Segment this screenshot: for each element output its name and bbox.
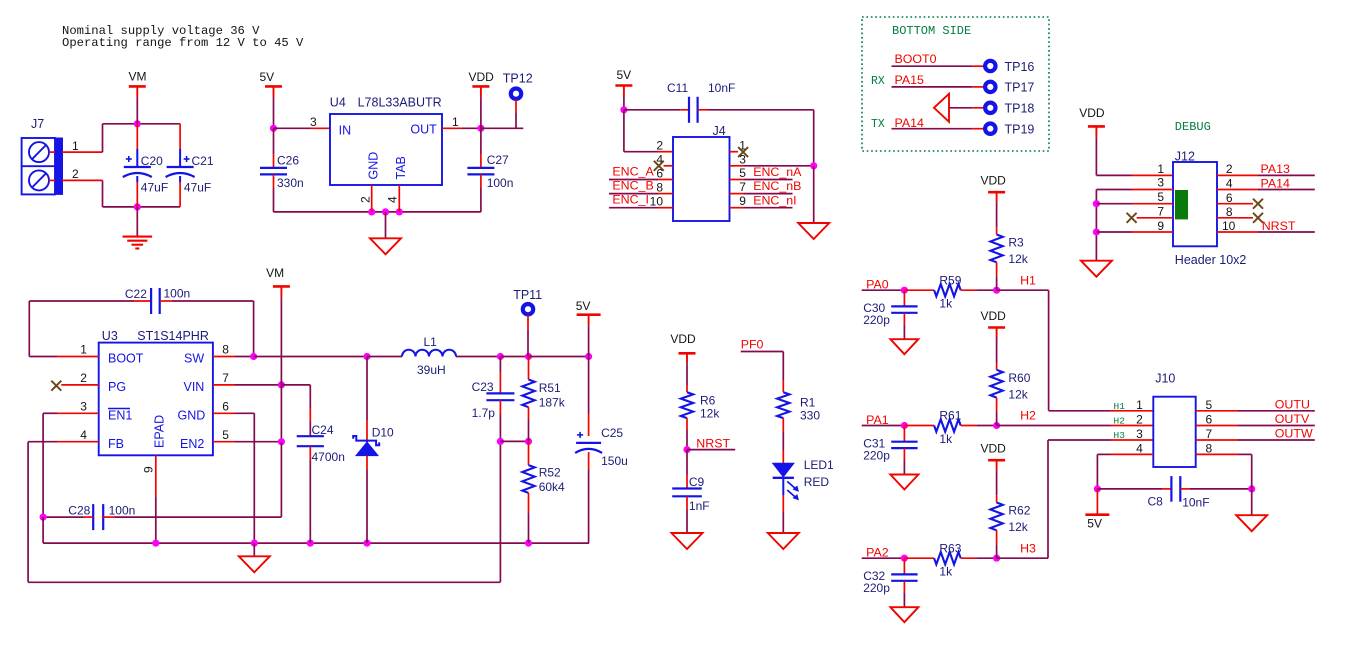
- resistor R61: [934, 419, 961, 431]
- svg-text:RED: RED: [804, 475, 830, 489]
- tag H1 green: [1114, 401, 1126, 412]
- wire VDD to R62: [996, 470, 998, 495]
- wire ENC_nB: [744, 193, 793, 195]
- svg-text:R62: R62: [1008, 504, 1030, 518]
- svg-text:5: 5: [222, 428, 229, 442]
- wire C27 to gnd rail: [399, 188, 481, 212]
- stub R63 right: [961, 557, 977, 559]
- svg-text:R60: R60: [1008, 371, 1030, 385]
- pin name EN2: [180, 437, 204, 451]
- net label OUTW: [1275, 427, 1313, 441]
- wire VDD to J12 pin1: [1096, 137, 1131, 175]
- net label H3: [1020, 541, 1036, 555]
- svg-text:C21: C21: [192, 154, 214, 168]
- svg-text:OUTW: OUTW: [1275, 427, 1313, 441]
- pin 2 stub J10: [1111, 425, 1154, 427]
- wire NRST stub: [687, 449, 735, 451]
- capacitor C31: [891, 442, 917, 448]
- net label ENC_nI: [753, 193, 796, 207]
- refdes C20: [141, 154, 163, 168]
- svg-text:4: 4: [386, 196, 400, 203]
- svg-text:100n: 100n: [109, 504, 136, 518]
- wire OUTV: [1238, 425, 1315, 427]
- wire R59 to node: [977, 289, 997, 291]
- wire SW to D10: [254, 356, 367, 358]
- net label NRST: [696, 436, 730, 450]
- svg-text:ENC_B: ENC_B: [612, 179, 653, 193]
- stub R61 left: [904, 425, 934, 427]
- wire mid row: [500, 440, 528, 442]
- stub C31 top: [903, 426, 905, 442]
- svg-text:U3: U3: [102, 329, 118, 343]
- pin number 6 of J4: [656, 166, 663, 180]
- wire PF0: [741, 352, 784, 381]
- wire C25 top: [588, 357, 590, 415]
- wire J10 pin8 to gnd corner: [1238, 454, 1252, 489]
- junction 5V / C25: [585, 353, 592, 360]
- junction rail EPAD: [152, 540, 159, 547]
- stub C8 right: [1180, 488, 1190, 490]
- capacitor C23: [486, 393, 514, 400]
- pin number 5 of J12: [1157, 190, 1164, 204]
- pin number 1 of U3: [80, 343, 87, 357]
- pin number 8 of J10: [1206, 441, 1213, 455]
- pin 6 stub J10: [1196, 425, 1238, 427]
- wire pin3 to gnd column: [744, 165, 814, 167]
- label J7: [31, 117, 44, 131]
- wire VDD to R3: [996, 202, 998, 227]
- wire VDD to R6: [686, 363, 688, 385]
- junction rail C24: [307, 540, 314, 547]
- net label ENC_nB: [753, 179, 801, 193]
- wire gnd stem U3 rail: [253, 543, 255, 556]
- diode D10 schottky: [353, 436, 379, 456]
- pin number 1 of J4: [739, 138, 746, 152]
- ground arrow at TP18: [934, 94, 949, 122]
- test point TP12: [503, 72, 533, 99]
- wire C21 column bottom: [179, 182, 181, 207]
- svg-text:EN1: EN1: [108, 408, 132, 422]
- value C9 1nF: [689, 499, 710, 513]
- net label H1: [1020, 273, 1036, 287]
- pin number 2 of J7: [72, 167, 79, 181]
- svg-text:SW: SW: [184, 352, 204, 366]
- wire C20 bottom stub: [136, 182, 138, 207]
- pin 4 stub U3 FB: [57, 441, 99, 443]
- wire PA13: [1258, 174, 1315, 176]
- resistor R60: [990, 370, 1002, 398]
- pin 7 stub J12: [1137, 217, 1173, 219]
- pin 4 stub J4: [664, 165, 674, 167]
- wire R63 to node: [977, 557, 997, 559]
- value C23 1.7p: [472, 406, 496, 420]
- wire C23 top: [499, 357, 501, 373]
- pin 1 stub U3 BOOT: [57, 356, 99, 358]
- wire 5V to IN junction: [273, 97, 275, 128]
- pin number 2 of J12: [1226, 162, 1233, 176]
- refdes C26: [277, 154, 299, 168]
- pin 8 stub J4: [658, 193, 673, 195]
- pin number 8 of J4: [656, 180, 663, 194]
- svg-text:C22: C22: [125, 287, 147, 301]
- value R51 187k: [539, 396, 566, 410]
- power symbol VDD (J12): [1079, 106, 1105, 137]
- svg-text:7: 7: [739, 180, 746, 194]
- part number L78L33ABUTR: [358, 96, 442, 110]
- power symbol 5V (buck out): [576, 299, 601, 326]
- wire C9 to gnd: [686, 510, 688, 533]
- wire TP12 stub: [515, 100, 517, 114]
- svg-text:5V: 5V: [260, 70, 275, 84]
- pin number 4 of U3: [80, 428, 87, 442]
- wire C27 top stub: [480, 154, 482, 168]
- pin number 7 of U3: [222, 371, 229, 385]
- svg-text:8: 8: [1226, 205, 1233, 219]
- capacitor C22: [151, 288, 160, 314]
- pin 7 stub U3 VIN: [213, 384, 235, 386]
- pin 5 stub J10: [1196, 410, 1238, 412]
- power symbol VDD (R6): [670, 332, 696, 363]
- wire D10 to rail: [366, 470, 368, 543]
- stub C30 top: [903, 290, 905, 306]
- svg-text:R51: R51: [539, 381, 561, 395]
- net label ENC_B: [612, 179, 653, 193]
- pin name EPAD (rotated): [153, 415, 167, 448]
- junction TP11 / R51: [525, 353, 532, 360]
- refdes C27: [487, 153, 509, 167]
- pin 2 stub J12: [1217, 174, 1258, 176]
- stub C30 bottom: [903, 313, 905, 324]
- wire NRST to C9: [686, 450, 688, 475]
- refdes C11: [667, 81, 688, 95]
- wire ENC_B: [609, 193, 658, 195]
- svg-text:C8: C8: [1148, 495, 1164, 509]
- junction J4 pin3 gnd column: [810, 162, 817, 169]
- wire PA14 bottom side: [892, 128, 973, 130]
- pin 5 stub U3 EN2: [213, 441, 235, 443]
- power symbol VDD (U4): [469, 70, 495, 97]
- wire C21 column top: [179, 124, 181, 149]
- pin 4 stub J10: [1111, 453, 1154, 455]
- stub R63 left: [904, 557, 934, 559]
- pin name FB: [108, 437, 124, 451]
- wire D10 top: [366, 357, 368, 421]
- net label NRST (debug): [1262, 219, 1296, 233]
- pin number 4 of U4 (rotated): [386, 196, 400, 203]
- pin name BOOT: [108, 352, 144, 366]
- wire VDD to R60: [996, 338, 998, 363]
- svg-text:TP18: TP18: [1005, 102, 1035, 116]
- wire to U4 IN: [274, 127, 311, 129]
- svg-text:2: 2: [72, 167, 79, 181]
- svg-text:10: 10: [650, 194, 664, 208]
- svg-text:OUTU: OUTU: [1275, 397, 1310, 411]
- ground symbol C30: [890, 339, 918, 354]
- junction OUT / VDD / C27: [477, 125, 484, 132]
- stub C32 top: [903, 558, 905, 574]
- svg-text:1: 1: [80, 343, 87, 357]
- wire TP11 stub: [527, 315, 529, 330]
- wire C11 right stub: [698, 109, 708, 111]
- net label PA14 (debug): [1261, 176, 1290, 190]
- junction 5V / C26 / IN: [270, 125, 277, 132]
- refdes J12: [1175, 150, 1195, 164]
- svg-text:H1: H1: [1020, 273, 1036, 287]
- junction PA1 / cap: [901, 422, 908, 429]
- node H1: [993, 287, 1000, 294]
- wire C32 to gnd: [903, 592, 905, 607]
- refdes R61: [939, 409, 961, 423]
- capacitor C25: [575, 432, 602, 453]
- stub LED1 bottom: [782, 477, 784, 495]
- wire J12 pin9: [1096, 231, 1131, 233]
- stub C22 left: [134, 300, 151, 302]
- wire R61 to node: [977, 425, 997, 427]
- junction VIN / VM: [278, 381, 285, 388]
- svg-text:VM: VM: [129, 70, 147, 84]
- svg-text:1k: 1k: [939, 565, 953, 579]
- pin number 6 of J10: [1206, 413, 1213, 427]
- wire gnd stem J7: [136, 207, 138, 236]
- svg-text:Operating range from 12 V to 4: Operating range from 12 V to 45 V: [62, 36, 304, 50]
- svg-text:3: 3: [1157, 176, 1164, 190]
- wire PA2: [862, 557, 905, 559]
- junction C28 / EN1: [40, 514, 47, 521]
- test point TP11: [513, 288, 542, 314]
- wire U4 gnd rail: [372, 211, 400, 213]
- pin 7 stub J10: [1196, 439, 1238, 441]
- connector J7: [22, 138, 63, 194]
- wire EN1 column: [43, 413, 57, 517]
- resistor R1: [777, 392, 789, 418]
- ground symbol J10: [1236, 515, 1267, 531]
- svg-text:5V: 5V: [617, 68, 632, 82]
- pin 6 stub J12: [1217, 203, 1253, 205]
- wire EN2 to VM column: [235, 441, 281, 443]
- pin 3 stub J10: [1111, 439, 1154, 441]
- svg-text:5: 5: [1157, 190, 1164, 204]
- wire R51 to mid junction: [528, 419, 530, 441]
- svg-text:NRST: NRST: [696, 436, 730, 450]
- stub R60 top: [996, 363, 998, 370]
- power symbol VM: [129, 70, 147, 98]
- junction gnd rail pin4: [396, 208, 403, 215]
- wire ENC_I: [609, 207, 658, 209]
- svg-text:OUT: OUT: [410, 123, 437, 137]
- svg-text:12k: 12k: [1008, 252, 1028, 266]
- wire C25 top stub: [588, 414, 590, 436]
- wire C9 bottom stub: [686, 496, 688, 510]
- wire ENC_nA: [744, 179, 793, 181]
- svg-text:C26: C26: [277, 154, 299, 168]
- junction gnd rail pin2: [368, 208, 375, 215]
- power symbol 5V (U4 input): [260, 70, 283, 97]
- capacitor C27: [467, 168, 494, 175]
- svg-text:VIN: VIN: [184, 380, 205, 394]
- svg-text:7: 7: [1206, 427, 1213, 441]
- wire C23 top stub: [499, 372, 501, 393]
- junction rail D10: [363, 540, 370, 547]
- net label PA2: [866, 546, 889, 560]
- svg-text:IN: IN: [339, 124, 352, 138]
- svg-text:J10: J10: [1155, 372, 1175, 386]
- pin name PG: [108, 380, 126, 394]
- svg-text:4: 4: [80, 428, 87, 442]
- value C20: [141, 181, 168, 195]
- svg-text:10: 10: [1222, 219, 1236, 233]
- svg-text:8: 8: [656, 180, 663, 194]
- power symbol 5V (J10): [1085, 515, 1109, 531]
- value C31 220p: [863, 448, 890, 462]
- regulator U3 box: [99, 343, 213, 456]
- net label ENC_A: [612, 165, 654, 179]
- svg-text:EPAD: EPAD: [153, 415, 167, 448]
- no-connect X J12 pin8: [1253, 213, 1263, 223]
- svg-text:H3: H3: [1020, 541, 1036, 555]
- wire bottom rail J7 caps: [137, 206, 180, 208]
- resistor R3: [990, 235, 1002, 263]
- svg-text:C24: C24: [312, 423, 334, 437]
- wire OUT to VDD junction: [462, 127, 481, 129]
- pin number 1 of J10: [1136, 398, 1143, 412]
- pin number 3 of J12: [1157, 176, 1164, 190]
- svg-text:R59: R59: [939, 273, 961, 287]
- wire C25 to rail: [588, 470, 590, 543]
- value R61 1k: [939, 432, 953, 446]
- refdes R52: [539, 466, 561, 480]
- svg-text:H1: H1: [1114, 401, 1126, 412]
- no-connect X J4 pin1: [738, 147, 748, 157]
- ground symbol U4: [370, 238, 401, 254]
- wire 5V stem buck: [588, 326, 590, 357]
- junction 5V / C11 / pin2: [620, 106, 627, 113]
- value R3 12k: [1008, 252, 1028, 266]
- svg-text:PA13: PA13: [1261, 162, 1290, 176]
- svg-text:39uH: 39uH: [417, 363, 446, 377]
- junction C23 / FB: [497, 438, 504, 445]
- capacitor C9: [672, 489, 702, 497]
- svg-text:GND: GND: [367, 152, 381, 180]
- refdes LED1: [804, 458, 834, 472]
- value Header 10x2: [1175, 253, 1247, 267]
- svg-text:TAB: TAB: [394, 156, 408, 179]
- stub R6 top: [686, 385, 688, 392]
- pin number 3 of J10: [1136, 427, 1143, 441]
- pin number 4 of J10: [1136, 441, 1143, 455]
- svg-text:ENC_nB: ENC_nB: [753, 179, 801, 193]
- svg-text:ENC_nI: ENC_nI: [753, 193, 796, 207]
- refdes C21: [192, 154, 214, 168]
- svg-text:9: 9: [1157, 219, 1164, 233]
- pin 2 stub J4: [658, 151, 673, 153]
- wire C11 right to corner: [708, 110, 814, 166]
- ground symbol C32: [890, 607, 918, 622]
- wire R3 to node: [996, 276, 998, 290]
- test point TP16: [985, 60, 1034, 74]
- svg-text:1: 1: [1157, 162, 1164, 176]
- refdes C30: [863, 301, 885, 315]
- svg-text:J4: J4: [713, 124, 726, 138]
- pin 8 stub J10: [1196, 453, 1238, 455]
- no-connect X J12 pin6: [1253, 199, 1263, 209]
- pin name EN1 with overbar: [108, 408, 132, 422]
- svg-text:L1: L1: [424, 335, 438, 349]
- svg-text:187k: 187k: [539, 396, 566, 410]
- wire C8 right: [1190, 488, 1252, 490]
- stub C32 bottom: [903, 581, 905, 592]
- stub TP17: [972, 86, 984, 88]
- svg-text:1: 1: [72, 139, 79, 153]
- svg-text:H2: H2: [1020, 409, 1036, 423]
- svg-text:2: 2: [1226, 162, 1233, 176]
- stub R52 top: [528, 441, 530, 465]
- stub C28 right: [102, 516, 114, 518]
- wire J7 pin2: [62, 179, 103, 181]
- stub R6 bottom: [686, 418, 688, 430]
- test point TP17: [985, 81, 1034, 95]
- refdes R60: [1008, 371, 1030, 385]
- svg-text:1k: 1k: [939, 297, 953, 311]
- value C8 10nF: [1182, 496, 1209, 510]
- junction VM rail / C20: [134, 120, 141, 127]
- wire R62 to node: [996, 544, 998, 558]
- pin 9 stub J4: [730, 207, 745, 209]
- wire EN1 column to rail: [42, 517, 44, 543]
- pin number 9 of J4: [739, 194, 746, 208]
- stub R60 bottom: [996, 398, 998, 412]
- power symbol VM (U3): [266, 266, 290, 297]
- svg-text:220p: 220p: [863, 448, 890, 462]
- junction J12 pin5: [1093, 200, 1100, 207]
- svg-text:OUTV: OUTV: [1275, 412, 1310, 426]
- refdes C32: [863, 569, 885, 583]
- value C27: [487, 176, 514, 190]
- svg-text:3: 3: [310, 115, 317, 129]
- wire TP18: [949, 107, 972, 109]
- svg-text:R3: R3: [1008, 236, 1024, 250]
- pin number 10 of J4: [650, 194, 664, 208]
- capacitor C24: [297, 436, 324, 446]
- svg-text:L78L33ABUTR: L78L33ABUTR: [358, 96, 442, 110]
- pin number 6 of J12: [1226, 191, 1233, 205]
- wire L1 to C23 junction: [456, 356, 500, 358]
- svg-text:ENC_A: ENC_A: [612, 165, 654, 179]
- wire H3 to J10 pin3: [997, 440, 1111, 558]
- svg-text:BOTTOM SIDE: BOTTOM SIDE: [892, 24, 971, 38]
- capacitor C26: [260, 168, 287, 175]
- power symbol VDD (R3): [981, 174, 1007, 203]
- capacitor C11: [689, 97, 698, 123]
- wire VDD stem U4: [480, 97, 482, 128]
- value LED1 RED: [804, 475, 830, 489]
- resistor R63: [934, 552, 961, 564]
- capacitor C8: [1171, 476, 1180, 502]
- net label H2: [1020, 409, 1036, 423]
- value C30 220p: [863, 313, 890, 327]
- junction EN2 / VM / C28: [278, 438, 285, 445]
- wire ENC_A: [609, 179, 658, 181]
- wire PA15: [892, 86, 973, 88]
- stub TP16: [972, 65, 984, 67]
- wire 5V down to J4 pin2: [624, 110, 658, 152]
- pin name VIN: [184, 380, 205, 394]
- refdes R1: [800, 396, 816, 410]
- pin 3 stub J4: [730, 165, 745, 167]
- pin number 5 of J10: [1206, 398, 1213, 412]
- wire gnd stem J10: [1251, 489, 1253, 515]
- svg-text:330n: 330n: [277, 176, 304, 190]
- svg-text:12k: 12k: [700, 407, 720, 421]
